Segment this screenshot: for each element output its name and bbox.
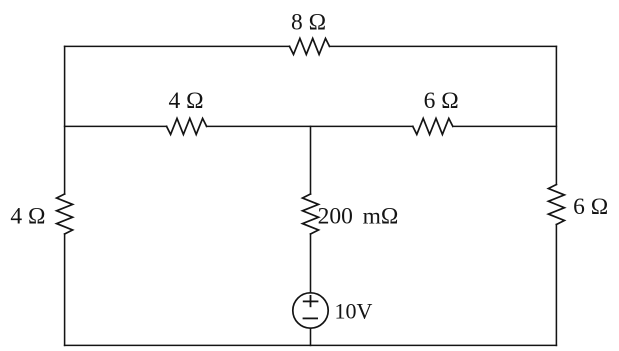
resistor 6 ohm right vertical: [548, 185, 564, 225]
svg-text:mΩ: mΩ: [363, 204, 399, 230]
voltage source 10V circle: [293, 293, 328, 328]
resistor 6 ohm horizontal: [413, 118, 453, 134]
wire middle row right segment: [453, 125, 557, 127]
wire top-right horizontal segment: [330, 45, 557, 47]
svg-text:6 Ω: 6 Ω: [424, 88, 459, 114]
wire middle row center segment: [207, 125, 413, 127]
svg-text:10V: 10V: [334, 298, 372, 323]
resistor 200 milliohm vertical: [303, 194, 319, 234]
svg-text:200: 200: [318, 204, 353, 230]
svg-text:4 Ω: 4 Ω: [168, 88, 203, 114]
resistor 4 ohm horizontal: [167, 118, 207, 134]
wire top-left horizontal segment: [65, 45, 290, 47]
wire middle row left segment: [65, 125, 167, 127]
voltage source plus sign: [304, 296, 318, 306]
wire right vertical upper segment: [555, 46, 557, 184]
resistor 4 ohm left vertical: [57, 194, 73, 234]
wire center vertical upper segment: [310, 126, 312, 194]
resistor 8 ohm: [290, 38, 330, 54]
voltage source minus sign: [304, 317, 318, 319]
svg-text:4 Ω: 4 Ω: [10, 203, 45, 229]
wire right vertical lower segment: [555, 225, 557, 346]
wire bottom horizontal: [65, 344, 557, 346]
wire center vertical bottom segment: [310, 328, 312, 345]
svg-text:8 Ω: 8 Ω: [291, 10, 326, 36]
wire left vertical lower segment: [64, 234, 66, 345]
svg-text:6 Ω: 6 Ω: [573, 194, 608, 220]
wire left vertical upper segment: [64, 46, 66, 194]
wire center vertical middle segment: [310, 234, 312, 293]
